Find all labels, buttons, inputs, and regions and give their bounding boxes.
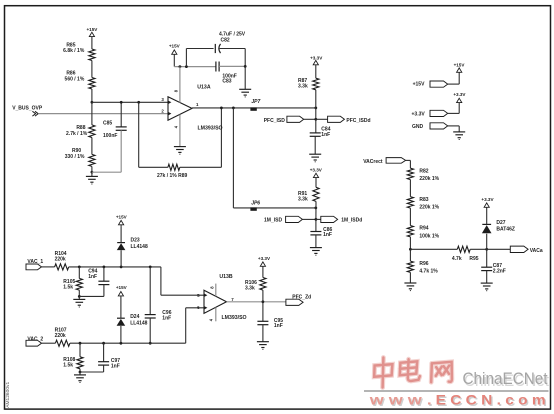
svg-text:220k 1%: 220k 1% — [419, 205, 439, 211]
node R108 — [79, 342, 82, 345]
diode D23 LL4148 — [120, 250, 122, 267]
ground (C86) — [310, 247, 322, 249]
svg-text:D27: D27 — [496, 220, 505, 226]
node D23 — [120, 266, 123, 269]
wire — [103, 285, 105, 297]
svg-text:U13B: U13B — [219, 274, 233, 280]
wire — [120, 226, 122, 242]
pin 8 U13B — [215, 284, 217, 297]
wire — [79, 369, 81, 372]
svg-text:D23: D23 — [131, 238, 140, 244]
svg-text:R82: R82 — [419, 168, 428, 174]
svg-text:100nF: 100nF — [103, 133, 117, 139]
svg-text:1nF: 1nF — [88, 274, 97, 280]
svg-text:w w w .: w w w . — [368, 393, 431, 408]
wire — [220, 48, 246, 50]
svg-text:+15V: +15V — [86, 27, 98, 32]
wire — [409, 237, 411, 249]
svg-text:VACa: VACa — [530, 248, 543, 254]
ground (C84) — [309, 153, 321, 155]
svg-text:4.7k 1%: 4.7k 1% — [419, 269, 438, 275]
node feedback tap — [137, 101, 140, 104]
wire — [120, 297, 122, 318]
svg-text:C82: C82 — [221, 38, 230, 44]
wire VAC1 line — [69, 266, 161, 268]
node VACa — [485, 248, 488, 251]
wire to pin6 — [185, 308, 187, 343]
wire — [262, 266, 264, 277]
node JP6 drop — [232, 107, 235, 110]
svg-text:PFC_ISD: PFC_ISD — [264, 118, 286, 124]
node C82 loop — [185, 65, 188, 68]
node R105 — [78, 266, 81, 269]
wire — [304, 118, 316, 120]
svg-text:+3.3V: +3.3V — [310, 55, 323, 60]
node C96 bottom — [149, 342, 152, 345]
wire — [103, 365, 105, 372]
svg-text:1M_ISDd: 1M_ISDd — [341, 218, 362, 224]
wire to pin5 — [160, 267, 162, 295]
wire — [91, 138, 93, 155]
resistor R85 — [89, 49, 95, 61]
node R108 gnd — [79, 371, 82, 374]
wire — [78, 290, 80, 296]
watermark chinese character dian — [400, 359, 420, 381]
wire — [448, 112, 460, 114]
ground (R108) — [79, 372, 81, 375]
wire — [448, 125, 460, 127]
wire — [173, 54, 175, 66]
resistor R82 — [407, 168, 413, 179]
wire — [406, 159, 411, 161]
wire — [315, 201, 317, 219]
svg-text:ChinaECNet: ChinaECNet — [463, 370, 548, 388]
svg-text:100k 1%: 100k 1% — [419, 234, 439, 240]
resistor R89 — [168, 164, 180, 170]
wire — [410, 248, 457, 250]
resistor R95 — [457, 246, 470, 252]
wire — [316, 118, 328, 120]
svg-text:1M_ISD: 1M_ISD — [264, 217, 282, 223]
svg-text:2: 2 — [161, 108, 164, 113]
svg-text:R95: R95 — [469, 256, 478, 262]
svg-text:3: 3 — [161, 97, 164, 102]
capacitor C86 — [315, 219, 317, 231]
svg-text:8: 8 — [210, 286, 215, 289]
resistor R88 — [91, 102, 93, 125]
svg-text:C83: C83 — [222, 79, 231, 85]
node divider tap — [409, 248, 412, 251]
node C97 — [102, 342, 105, 345]
svg-text:560 / 1%: 560 / 1% — [65, 77, 85, 83]
resistor R107 — [55, 340, 70, 346]
resistor R94 — [407, 226, 413, 237]
wire — [486, 207, 488, 224]
ground (GND connector) — [453, 131, 465, 133]
wire — [302, 218, 316, 220]
wire — [470, 248, 487, 250]
svg-text:+3.3V: +3.3V — [481, 197, 494, 202]
capacitor C94 — [103, 267, 105, 281]
resistor R108 — [79, 343, 81, 357]
svg-text:220k: 220k — [55, 333, 66, 339]
node C96 top — [149, 266, 152, 269]
wire — [91, 37, 93, 49]
node R105 gnd — [78, 295, 81, 298]
wire U13A output — [192, 107, 316, 109]
svg-text:AM12600v1: AM12600v1 — [5, 381, 11, 407]
capacitor C97 — [103, 343, 105, 361]
svg-text:U13A: U13A — [197, 84, 211, 90]
svg-text:+3.3V: +3.3V — [453, 92, 466, 97]
capacitor C85 — [120, 102, 122, 126]
connector 1M_ISDd — [321, 216, 338, 222]
svg-text:1nF: 1nF — [111, 363, 120, 369]
svg-text:220k: 220k — [55, 257, 66, 263]
node supply right — [244, 65, 247, 68]
svg-text:D24: D24 — [130, 314, 139, 320]
resistor R87 — [313, 78, 319, 90]
wire — [42, 342, 56, 344]
wire — [244, 66, 246, 89]
svg-text:2.7k / 1%: 2.7k / 1% — [66, 131, 88, 137]
svg-text:+3.3V: +3.3V — [310, 167, 323, 172]
wire — [409, 249, 411, 261]
svg-text:1nF: 1nF — [323, 232, 332, 238]
op-amp U13B — [204, 290, 227, 313]
wire — [409, 272, 411, 283]
wire — [448, 83, 460, 85]
ground (R105) — [78, 296, 80, 299]
pin 8 U13A — [179, 67, 181, 103]
svg-text:2.2nF: 2.2nF — [493, 268, 506, 274]
wire — [315, 90, 317, 108]
svg-text:R94: R94 — [419, 226, 428, 232]
capacitor C83 — [215, 62, 217, 72]
svg-text:4: 4 — [208, 318, 213, 321]
svg-text:PFC_Zd: PFC_Zd — [292, 295, 311, 301]
watermark chinese character zhong — [374, 358, 392, 388]
svg-text:V_BUS_OVP: V_BUS_OVP — [12, 105, 43, 111]
connector PFC_Zd — [286, 299, 303, 305]
ground (divider) — [91, 172, 93, 176]
svg-text:8: 8 — [174, 89, 179, 92]
wire — [315, 235, 317, 248]
svg-text:+15V: +15V — [454, 62, 466, 67]
svg-text:4.7k: 4.7k — [452, 256, 462, 262]
resistor R105 — [78, 267, 80, 279]
svg-text:R83: R83 — [419, 197, 428, 203]
svg-text:VACrect: VACrect — [363, 159, 383, 165]
ground (supply caps) — [239, 88, 251, 90]
svg-text:3.3k: 3.3k — [298, 84, 308, 90]
op-amp U13A — [168, 97, 192, 121]
svg-text:3.3k: 3.3k — [245, 285, 255, 291]
wire — [91, 89, 93, 102]
svg-text:+15V: +15V — [169, 44, 181, 49]
wire — [315, 178, 317, 188]
resistor R106 — [260, 278, 266, 291]
pin 4 U13B — [215, 307, 217, 321]
capacitor C87 — [486, 249, 488, 267]
svg-text:JP6: JP6 — [251, 200, 260, 206]
wire — [409, 180, 411, 197]
wire C85 return — [120, 130, 122, 172]
node pin8 drop — [179, 65, 182, 68]
ground (C95) — [257, 341, 269, 343]
node feedback join — [220, 107, 223, 110]
svg-text:27k / 1% R89: 27k / 1% R89 — [157, 173, 188, 179]
capacitor C95 — [262, 302, 264, 321]
ground (U13A pin4) — [174, 146, 186, 148]
svg-text:BAT46Z: BAT46Z — [496, 226, 515, 232]
svg-text:LM393/SO: LM393/SO — [222, 315, 247, 321]
capacitor C82 — [214, 44, 216, 53]
node divider — [91, 101, 94, 104]
watermark rule line — [364, 390, 549, 392]
diode D24 LL4148 — [120, 326, 122, 343]
connector VACa — [510, 246, 528, 252]
svg-text:+3.3V: +3.3V — [258, 256, 271, 261]
svg-text:LL4148: LL4148 — [131, 244, 148, 250]
node C85 top — [120, 101, 123, 104]
wire — [91, 166, 93, 172]
wire — [316, 218, 321, 220]
diode D27 BAT46Z — [486, 234, 488, 250]
resistor R96 — [407, 261, 413, 272]
node D24 — [120, 342, 123, 345]
svg-text:LM393/SO: LM393/SO — [198, 126, 223, 132]
resistor R104 — [55, 264, 69, 270]
svg-text:6.8k / 1%: 6.8k / 1% — [63, 48, 85, 54]
svg-text:+3.3V: +3.3V — [412, 111, 426, 117]
wire — [262, 290, 264, 302]
capacitor C84 — [315, 119, 317, 132]
pin 4 U13A — [179, 115, 181, 147]
wire C82 loop — [185, 49, 187, 67]
node C94 — [103, 266, 106, 269]
capacitor C96 — [149, 267, 151, 315]
svg-text:330 / 1%: 330 / 1% — [65, 154, 85, 160]
svg-text:1nF: 1nF — [274, 323, 283, 329]
node U13B out — [262, 300, 265, 303]
connector PFC_ISDd — [328, 116, 345, 122]
svg-text:GND: GND — [412, 124, 424, 130]
svg-text:220k 1%: 220k 1% — [419, 176, 439, 182]
resistor R83 — [407, 197, 413, 208]
wire VAC2 line — [70, 342, 186, 344]
svg-text:4: 4 — [174, 125, 179, 128]
svg-text:R96: R96 — [419, 261, 428, 267]
svg-text:+15V: +15V — [413, 82, 425, 88]
node 1M_ISD — [315, 218, 318, 221]
svg-text:1: 1 — [196, 102, 199, 107]
ground (C87) — [481, 282, 493, 284]
svg-text:C85: C85 — [103, 121, 112, 127]
wire feedback left — [138, 102, 140, 167]
svg-text:1.5k: 1.5k — [63, 285, 73, 291]
node JP6 join — [314, 207, 317, 210]
wire — [486, 271, 488, 283]
svg-text:JP7: JP7 — [251, 99, 260, 105]
node R90 ground — [91, 171, 94, 174]
wire — [91, 61, 93, 78]
wire — [149, 318, 151, 343]
wire — [219, 65, 245, 67]
wire feedback right — [180, 166, 222, 168]
node PFC_ISD — [314, 118, 317, 121]
wire — [42, 266, 55, 268]
wire — [262, 325, 264, 342]
svg-text:LL4148: LL4148 — [130, 321, 147, 327]
svg-text:1.5k: 1.5k — [63, 362, 73, 368]
svg-text:3.3k: 3.3k — [298, 196, 308, 202]
wire U13B output — [227, 301, 286, 303]
wire JP6 branch — [232, 108, 234, 208]
svg-text:1nF: 1nF — [321, 132, 330, 138]
resistor R91 — [313, 187, 319, 201]
wire — [409, 208, 411, 225]
resistor R90 — [89, 154, 95, 166]
svg-text:+15V: +15V — [116, 285, 128, 290]
svg-text:1nF: 1nF — [162, 315, 171, 321]
wire — [315, 65, 317, 78]
watermark chinese characters glow — [374, 358, 452, 388]
ground (R96) — [404, 282, 416, 284]
wire V_BUS_OVP to pin2 — [38, 113, 168, 115]
watermark chinese character wang — [431, 362, 452, 382]
svg-text:PFC_ISDd: PFC_ISDd — [346, 118, 370, 124]
resistor R86 — [89, 78, 95, 90]
wire to pin3 — [92, 101, 168, 103]
svg-text:E C C N . c o m: E C C N . c o m — [436, 393, 546, 408]
node R87 — [314, 107, 317, 110]
wire — [314, 137, 316, 155]
svg-text:+15V: +15V — [116, 215, 128, 220]
wire — [487, 248, 511, 250]
